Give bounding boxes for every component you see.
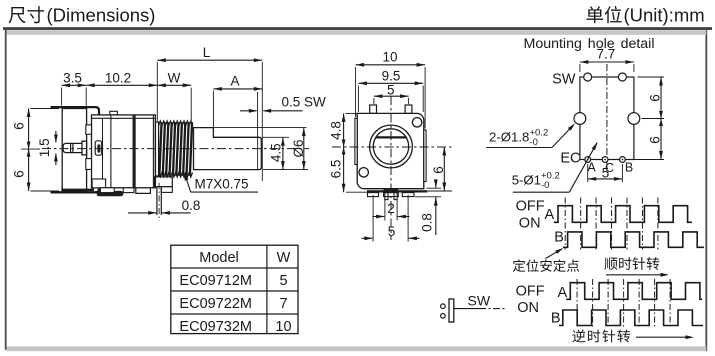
upper waveform detent dash-dot lines: [564, 198, 566, 250]
svg-text:M7X0.75: M7X0.75: [195, 177, 249, 192]
svg-text:10: 10: [275, 319, 291, 335]
dimension 5 top (pin pitch): [373, 98, 375, 104]
dimension 4.8 / 6.5 left chain: [346, 112, 357, 114]
front view horizontal centerline: [332, 146, 452, 148]
switch symbol actuator plate: [449, 299, 454, 322]
left dimension 6 and 6 (cover height halves): [31, 108, 60, 110]
svg-text:EC09712M: EC09712M: [179, 273, 252, 289]
svg-text:W: W: [168, 71, 181, 86]
lower waveform detent dash-dot lines: [576, 279, 578, 328]
dimension W: [156, 62, 158, 121]
dimension 5 bottom (outer pin pitch): [372, 195, 374, 242]
label counter-clockwise rotation with arrow: [572, 329, 585, 342]
dimension A: [212, 91, 214, 137]
svg-text:SW: SW: [468, 292, 491, 308]
side view interlock notches between cover and body: [86, 125, 92, 134]
svg-text:9.5: 9.5: [382, 68, 401, 83]
side view bottom bent mounting tab: [51, 186, 100, 192]
svg-text:OFF: OFF: [516, 283, 545, 299]
front view ear hole top-right: [412, 118, 421, 127]
front view body outline: [357, 113, 424, 188]
dimension diameter 6 (shaft): [214, 127, 307, 129]
svg-text:A: A: [587, 161, 596, 175]
side view bushing base block: [155, 177, 173, 187]
svg-text:6: 6: [647, 136, 662, 144]
svg-text:-0: -0: [530, 137, 538, 148]
svg-text:-0: -0: [541, 180, 549, 191]
svg-text:3.5: 3.5: [63, 71, 82, 86]
side view pin seats under body: [100, 188, 114, 193]
svg-text:OFF: OFF: [516, 199, 545, 215]
header separator rule: [3, 27, 712, 30]
svg-text:ON: ON: [517, 300, 539, 316]
svg-text:Model: Model: [199, 250, 239, 266]
dimension L: [261, 62, 263, 181]
side view bottom-left notch of body: [92, 179, 106, 188]
svg-text:B: B: [554, 230, 564, 246]
front view top switch pins: [370, 105, 377, 113]
side view tray step under body: [136, 188, 151, 194]
side view horizontal centerline: [42, 148, 309, 150]
upper waveform channel A (clockwise): [554, 206, 692, 223]
front view bushing outer circle: [370, 125, 413, 168]
dimension 10.2: [86, 84, 157, 86]
svg-text:10: 10: [382, 49, 397, 64]
svg-text:(Dimensions): (Dimensions): [47, 5, 156, 26]
dimension 5 (A to B): [587, 164, 589, 182]
mounting detail 1.8mm holes: [574, 113, 586, 125]
svg-text:2: 2: [387, 201, 395, 216]
svg-text:7: 7: [279, 296, 287, 312]
svg-text:4.8: 4.8: [329, 121, 344, 140]
upper waveform channel B (clockwise): [563, 232, 704, 247]
model table grid: [171, 245, 298, 333]
EC hole center marks: [587, 159, 589, 161]
svg-text:A: A: [558, 285, 568, 301]
lower waveform channel B (counter-clockwise): [559, 310, 703, 326]
side view body internal edge lines: [102, 118, 104, 188]
svg-text:5: 5: [387, 83, 395, 98]
svg-text:EC09722M: EC09722M: [179, 296, 252, 312]
svg-text:(Unit):mm: (Unit):mm: [624, 5, 705, 26]
front view vertical centerline: [390, 96, 392, 240]
panel inner bottom shading band: [7, 346, 707, 351]
svg-text:6: 6: [647, 94, 662, 102]
switch symbol contacts: [441, 304, 446, 309]
svg-text:10.2: 10.2: [105, 71, 131, 86]
mounting detail outline rectangle: [580, 77, 634, 160]
side view shaft with flat: [194, 128, 262, 170]
front view shaft inner circle: [373, 129, 408, 164]
svg-text:0.8: 0.8: [182, 198, 201, 213]
svg-text:ON: ON: [519, 216, 541, 232]
front view center dark insert block: [384, 189, 399, 192]
side view center pin stub with round end: [63, 143, 82, 152]
side view top bent mounting tab: [51, 107, 100, 115]
dimension 6 right (center to bottom): [428, 190, 453, 192]
dimension 1.5 (pin stub): [55, 131, 57, 143]
side view bottom thick solder edge under cover: [61, 189, 94, 191]
front view right side tab: [424, 130, 426, 182]
mounting detail SW holes: [584, 73, 592, 81]
side view dark internal band: [133, 115, 136, 188]
svg-text:W: W: [277, 250, 291, 266]
mounting detail EC holes A C B: [585, 157, 591, 163]
svg-text:6: 6: [11, 170, 26, 178]
svg-text:A: A: [230, 74, 239, 89]
svg-text:0.5 SW: 0.5 SW: [282, 95, 327, 110]
front view center pins: [385, 193, 388, 200]
dimension 6 and 6 right of detail: [638, 76, 665, 78]
svg-text:5: 5: [279, 273, 287, 289]
svg-text:2-Ø1.8: 2-Ø1.8: [489, 130, 529, 145]
svg-text:1.5: 1.5: [37, 138, 52, 157]
side view small tab on body top: [110, 111, 118, 115]
front view bottom pin seats: [368, 193, 379, 197]
svg-text:EC: EC: [560, 151, 580, 167]
panel inner top shading band: [7, 30, 707, 35]
panel border right: [705, 30, 707, 352]
mounting detail vertical centerline: [606, 64, 608, 170]
side view rear cover plate: [62, 109, 86, 192]
side view bushing neck flange: [155, 122, 158, 176]
svg-text:B: B: [625, 161, 633, 175]
side view threaded bushing M7 (thread profile): [159, 121, 193, 126]
dimension 0.8 (seat height, front view): [427, 187, 442, 189]
svg-text:Mounting hole detail: Mounting hole detail: [524, 36, 655, 52]
dimension 3.5 extension lines: [61, 88, 63, 106]
svg-text:7.7: 7.7: [597, 46, 616, 61]
svg-text:EC09732M: EC09732M: [179, 319, 252, 335]
label detent stable point with arrow: [513, 259, 525, 272]
side view small slot with dark insert: [95, 141, 102, 155]
dimension 0.8 (leg width): [128, 212, 157, 214]
dimension 0.5 SW (switch travel): [257, 92, 259, 169]
page header unit label: [586, 6, 603, 23]
label M7X0.75 with leader: [191, 191, 258, 193]
side view black solder lug under body: [97, 191, 124, 196]
switch symbol lead line and SW label: [454, 308, 479, 310]
dimension 2 (center pin pitch): [384, 200, 386, 221]
side view step right of leg: [161, 187, 172, 193]
svg-text:6.5: 6.5: [329, 160, 344, 179]
svg-text:Ø6: Ø6: [291, 139, 306, 157]
svg-text:5-Ø1: 5-Ø1: [512, 173, 541, 188]
side view main body block: [92, 115, 156, 188]
front view left side tab: [355, 118, 357, 164]
svg-text:A: A: [545, 207, 555, 223]
dimension 3.5: [62, 84, 87, 86]
lower waveform channel A (counter-clockwise): [566, 283, 702, 300]
panel border left: [5, 30, 7, 350]
svg-text:L: L: [203, 45, 211, 60]
side view body inner top line: [92, 117, 156, 119]
front view ear hole bottom-left: [359, 168, 368, 177]
svg-text:C: C: [605, 161, 614, 175]
dimension 4.5 (shaft flat): [262, 136, 289, 138]
side view mounting leg (0.8 wide): [156, 187, 158, 215]
dimension 9.5: [357, 86, 359, 113]
page header title (Chinese+English): [9, 7, 26, 23]
front view shaft flat chord: [376, 136, 407, 138]
front view body bottom thick edge: [367, 190, 427, 192]
svg-text:6: 6: [431, 166, 446, 174]
dimension 7.7: [579, 64, 581, 72]
svg-text:4.5: 4.5: [269, 143, 284, 162]
svg-text:SW: SW: [552, 72, 576, 88]
side view pin stub collar: [82, 141, 87, 155]
svg-text:0.8: 0.8: [420, 213, 435, 232]
label clockwise rotation with arrow: [604, 258, 617, 270]
svg-text:6: 6: [11, 122, 26, 130]
svg-text:5: 5: [388, 224, 396, 239]
svg-text:B: B: [551, 310, 561, 326]
dimension 10: [355, 67, 357, 117]
